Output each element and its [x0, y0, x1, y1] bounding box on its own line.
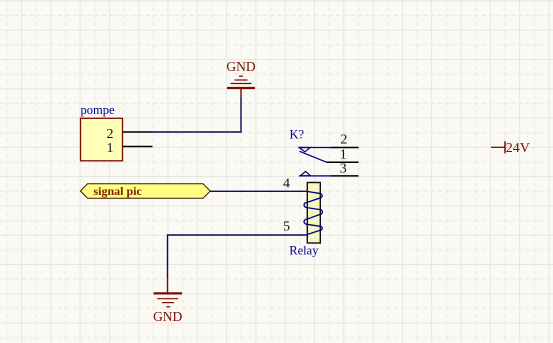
svg-text:3: 3	[340, 162, 347, 177]
svg-text:4: 4	[283, 177, 290, 192]
relay K? coil winding	[304, 191, 322, 234]
svg-text:1: 1	[107, 141, 114, 156]
svg-text:Relay: Relay	[289, 244, 319, 258]
power port GND (bottom)	[153, 278, 182, 324]
pompe pin 2	[107, 127, 153, 142]
svg-text:pompe: pompe	[81, 103, 115, 117]
svg-text:2: 2	[107, 127, 114, 142]
svg-text:2: 2	[340, 133, 347, 148]
relay K? switch arm	[300, 151, 327, 162]
pompe pin 1	[107, 141, 153, 156]
relay K? switch pin 1	[327, 148, 359, 163]
svg-text:24V: 24V	[506, 141, 530, 156]
wire: coil pin 5 to GND	[168, 235, 307, 278]
power port GND (top)	[226, 59, 255, 97]
svg-text:signal pic: signal pic	[94, 184, 143, 198]
power port 24V	[491, 141, 530, 156]
wire: pompe pin 2 to GND	[153, 97, 242, 132]
svg-text:K?: K?	[290, 128, 305, 142]
port signal pic	[81, 184, 211, 198]
relay K? coil body	[307, 183, 320, 244]
relay K? switch pin 2	[299, 133, 359, 152]
svg-text:GND: GND	[153, 309, 182, 324]
svg-text:1: 1	[340, 148, 347, 163]
relay K? switch pin 3	[299, 162, 359, 177]
component pompe: body	[81, 118, 123, 161]
svg-text:GND: GND	[226, 59, 255, 74]
wire: signal pic to relay coil pin 4	[210, 190, 307, 192]
svg-text:5: 5	[283, 220, 290, 235]
